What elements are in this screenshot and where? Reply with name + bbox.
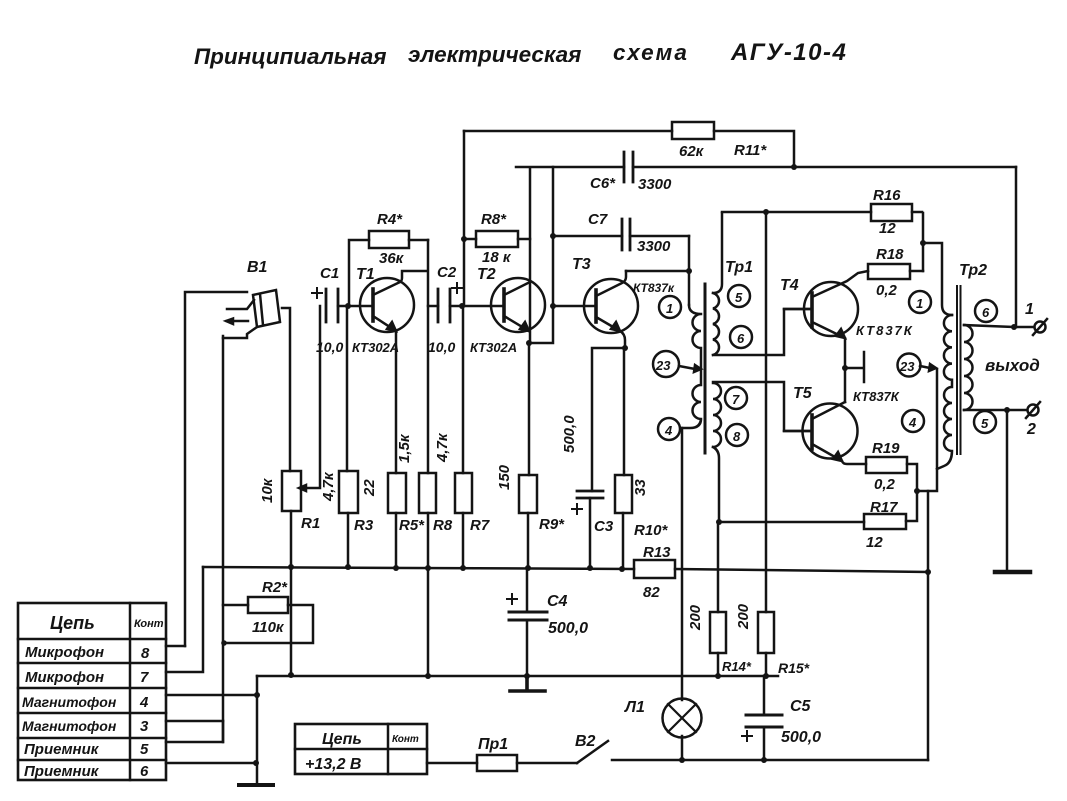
- microphone jack B1: [185, 259, 280, 646]
- node R8 left: [461, 236, 467, 242]
- svg-text:4: 4: [664, 423, 673, 438]
- node dots on bus A: [288, 564, 625, 572]
- svg-text:R13: R13: [643, 544, 671, 561]
- svg-text:С3: С3: [594, 518, 614, 535]
- node T1 base: [345, 303, 351, 309]
- svg-text:С2: С2: [437, 264, 457, 281]
- svg-text:Конт: Конт: [392, 734, 419, 745]
- wire tap23 Tp2 down to node: [917, 369, 937, 491]
- svg-text:Магнитофон: Магнитофон: [22, 718, 117, 734]
- svg-text:В2: В2: [575, 733, 596, 750]
- wire row5: [166, 721, 223, 742]
- svg-text:Т4: Т4: [780, 277, 799, 294]
- pin 4: [658, 418, 680, 440]
- transistor T4: [780, 271, 914, 402]
- svg-text:7: 7: [140, 669, 149, 686]
- svg-text:110к: 110к: [252, 619, 285, 636]
- svg-text:С5: С5: [790, 698, 812, 715]
- wire 62k bus left vertical (to R8 left and T2 base): [463, 131, 466, 306]
- svg-text:10,0: 10,0: [316, 339, 343, 355]
- svg-text:0,2: 0,2: [876, 282, 898, 299]
- pin 23 with arrow: [653, 351, 701, 377]
- wire row3: [166, 720, 223, 723]
- svg-text:Приемник: Приемник: [24, 763, 100, 780]
- svg-text:1: 1: [666, 301, 673, 316]
- connector table XS1: [18, 603, 166, 780]
- node R19/R17/tap4: [914, 488, 920, 494]
- svg-text:С7: С7: [588, 211, 608, 228]
- svg-text:8: 8: [733, 429, 741, 444]
- svg-text:1,5к: 1,5к: [396, 433, 413, 463]
- resistor R16: [871, 187, 912, 237]
- node dots on bus B: [288, 672, 769, 679]
- svg-text:R17: R17: [870, 499, 898, 516]
- svg-text:Тр2: Тр2: [959, 262, 987, 279]
- transistor T1: [348, 266, 414, 355]
- node T3 emitter: [622, 345, 628, 351]
- svg-text:КТ837к: КТ837к: [633, 281, 675, 295]
- svg-text:Цепь: Цепь: [50, 613, 95, 633]
- transformer Tp2 core: [957, 286, 961, 454]
- svg-text:Принципиальная: Принципиальная: [194, 44, 387, 69]
- tap stub with bar: [845, 352, 864, 382]
- svg-text:Цепь: Цепь: [322, 731, 362, 748]
- svg-text:22: 22: [361, 479, 378, 497]
- svg-text:150: 150: [496, 464, 513, 490]
- svg-text:R8: R8: [433, 517, 453, 534]
- svg-text:Пр1: Пр1: [478, 736, 508, 753]
- wire T1 emitter to R5: [395, 331, 398, 473]
- svg-text:Магнитофон: Магнитофон: [22, 694, 117, 710]
- output terminal 1: [964, 301, 1047, 335]
- resistor R8* 18k: [464, 211, 530, 266]
- svg-text:6: 6: [737, 331, 745, 346]
- svg-text:5: 5: [981, 416, 989, 431]
- transistor T2: [462, 266, 545, 355]
- svg-text:Тр1: Тр1: [725, 259, 753, 276]
- long vertical to R15: [765, 212, 768, 612]
- svg-text:R10*: R10*: [634, 522, 669, 539]
- svg-text:5: 5: [140, 741, 149, 758]
- wire R1 bottom through bus-A to bus-B: [290, 511, 293, 675]
- svg-text:С4: С4: [547, 593, 568, 610]
- wire row8 to B1: [166, 645, 185, 648]
- svg-text:R9*: R9*: [539, 516, 565, 533]
- wire B1 output to R1 top: [282, 308, 290, 471]
- resistor R17: [719, 491, 917, 551]
- transistor T5: [784, 385, 900, 464]
- svg-text:3300: 3300: [637, 238, 671, 255]
- pin 5 Tp2: [974, 411, 996, 433]
- svg-text:R18: R18: [876, 246, 904, 263]
- svg-text:Микрофон: Микрофон: [25, 644, 104, 661]
- svg-text:электрическая: электрическая: [408, 42, 581, 67]
- svg-text:R19: R19: [872, 440, 900, 457]
- svg-text:5: 5: [735, 290, 743, 305]
- Tp2 primary winding: [937, 315, 952, 469]
- svg-text:В1: В1: [247, 259, 268, 276]
- svg-text:4,7к: 4,7к: [320, 471, 337, 502]
- output terminal 2: [964, 402, 1040, 438]
- node row4 junction: [254, 692, 260, 698]
- svg-text:АГУ-10-4: АГУ-10-4: [730, 39, 847, 66]
- node bus211/R15 vert: [763, 209, 769, 215]
- svg-text:6: 6: [982, 305, 990, 320]
- svg-text:R5*: R5*: [399, 517, 425, 534]
- lamp L1: [624, 428, 702, 760]
- node R2 loop joint: [221, 640, 227, 646]
- Tp1 primary winding (1-23-4): [682, 305, 701, 428]
- svg-text:6: 6: [140, 763, 149, 780]
- svg-text:82: 82: [643, 584, 660, 601]
- pin 4 Tp2: [902, 410, 924, 432]
- resistor R7: [434, 306, 490, 567]
- svg-text:1: 1: [916, 296, 923, 311]
- ground: [239, 783, 273, 787]
- svg-text:4: 4: [139, 694, 149, 711]
- node T2 emitter / R9: [526, 340, 532, 346]
- svg-text:200: 200: [735, 603, 752, 630]
- node terminal2 ground branch: [1004, 407, 1010, 413]
- svg-text:62к: 62к: [679, 143, 705, 160]
- wire row6: [166, 762, 256, 765]
- switch B2: [575, 733, 608, 763]
- power table: [295, 724, 427, 774]
- svg-text:выход: выход: [985, 356, 1040, 375]
- svg-text:10к: 10к: [259, 477, 276, 503]
- svg-text:КТ837К: КТ837К: [856, 323, 914, 338]
- svg-text:33: 33: [632, 479, 649, 496]
- svg-text:R1: R1: [301, 515, 320, 532]
- svg-text:R3: R3: [354, 517, 374, 534]
- wire output common down to bus A and bottom: [927, 491, 930, 760]
- resistor R5*: [361, 473, 425, 567]
- capacitor C6* with bus: [516, 152, 1016, 193]
- svg-text:Приемник: Приемник: [24, 741, 100, 758]
- supply bus A with R13: [203, 567, 928, 572]
- pin 1 Tp2: [909, 291, 931, 313]
- Tp1 secondary winding 7-8: [713, 382, 812, 522]
- wire row7 to ground bus: [166, 567, 203, 672]
- ground below C4: [510, 676, 545, 691]
- svg-text:Микрофон: Микрофон: [25, 669, 104, 686]
- svg-text:4,7к: 4,7к: [434, 432, 451, 463]
- node bus A right: [925, 569, 931, 575]
- node R16/R18 junction: [920, 240, 926, 246]
- svg-text:Т1: Т1: [356, 266, 375, 283]
- wire vertical bus-B left end down: [256, 676, 259, 783]
- potentiometer R1: [259, 306, 320, 532]
- capacitor C3: [561, 415, 614, 568]
- svg-text:23: 23: [899, 359, 915, 374]
- pin 5: [728, 285, 750, 307]
- resistor R19: [866, 440, 917, 493]
- pin 7: [725, 387, 747, 409]
- pin 23 Tp2 with arrow: [898, 354, 937, 377]
- pin 1: [659, 296, 681, 318]
- node C5 bottom: [761, 757, 767, 763]
- svg-text:4: 4: [908, 415, 917, 430]
- node T2 base: [459, 303, 465, 309]
- node output 1: [1011, 324, 1017, 330]
- ground bus B: [257, 675, 778, 678]
- capacitor C4: [507, 569, 588, 676]
- wire T3 emitter branch to C3: [592, 348, 625, 491]
- wire B1 switch contact down (R2/rows3,5): [222, 336, 225, 742]
- capacitor C7: [553, 211, 689, 255]
- node row6 junction: [253, 760, 259, 766]
- svg-text:2: 2: [1026, 421, 1036, 438]
- svg-text:1: 1: [1025, 301, 1034, 318]
- svg-text:500,0: 500,0: [561, 415, 578, 453]
- svg-text:R8*: R8*: [481, 211, 507, 228]
- top bus 62k R11*: [464, 122, 794, 167]
- svg-text:Л1: Л1: [624, 699, 645, 716]
- svg-text:7: 7: [732, 392, 740, 407]
- svg-text:КТ837К: КТ837К: [853, 389, 900, 404]
- svg-text:0,2: 0,2: [874, 476, 896, 493]
- node T4e/T5c tap: [842, 365, 848, 371]
- pin 6: [730, 326, 752, 348]
- svg-text:23: 23: [655, 358, 671, 373]
- svg-text:С1: С1: [320, 265, 339, 282]
- capacitor C2: [428, 264, 462, 355]
- svg-text:3: 3: [140, 718, 149, 735]
- ground right: [1006, 410, 1009, 570]
- resistor R4*: [349, 211, 428, 306]
- svg-text:18 к: 18 к: [482, 249, 512, 266]
- svg-text:R7: R7: [470, 517, 490, 534]
- fuse Pr1: [427, 736, 577, 771]
- svg-text:12: 12: [879, 220, 896, 237]
- resistor R10*: [615, 348, 669, 569]
- svg-text:Конт: Конт: [134, 618, 164, 630]
- svg-text:КТ302А: КТ302А: [470, 340, 517, 355]
- svg-text:Т2: Т2: [477, 266, 496, 283]
- resistor R14*: [687, 522, 752, 676]
- svg-text:10,0: 10,0: [428, 339, 455, 355]
- transformer Tp1 core: [704, 284, 707, 453]
- wire row4 to vert: [166, 694, 257, 697]
- wire T1 collector up and to C2: [400, 240, 438, 306]
- wire C6 bus vertical to R8 right and T2 collector: [529, 168, 532, 343]
- resistor R13: [634, 544, 675, 601]
- svg-text:3300: 3300: [638, 176, 672, 193]
- svg-text:12: 12: [866, 534, 883, 551]
- svg-text:КТ302А: КТ302А: [352, 340, 399, 355]
- wire T3 collector to C7 right / Tp1 top: [626, 236, 689, 305]
- svg-text:+13,2 В: +13,2 В: [305, 756, 361, 773]
- node R14 top / winding8: [716, 519, 722, 525]
- capacitor C1: [312, 265, 348, 355]
- wire T2 emitter down, corner to T3 base vertical: [529, 167, 553, 343]
- svg-text:R14*: R14*: [722, 659, 752, 674]
- svg-text:200: 200: [687, 604, 704, 631]
- resistor R18: [868, 246, 923, 299]
- resistor R8 (1,5k): [396, 306, 453, 676]
- wire feedback vertical right: [1015, 167, 1018, 327]
- svg-text:схема: схема: [613, 40, 689, 65]
- node T3 collector: [686, 268, 692, 274]
- capacitor C5: [742, 676, 821, 760]
- node T3 base: [550, 303, 556, 309]
- title: [194, 39, 847, 69]
- svg-text:R15*: R15*: [778, 660, 810, 676]
- svg-text:Т5: Т5: [793, 385, 813, 402]
- pin 8: [726, 424, 748, 446]
- svg-text:R4*: R4*: [377, 211, 403, 228]
- bottom supply line: [612, 759, 928, 762]
- pin 6 Tp2: [975, 300, 997, 322]
- node lamp bottom: [679, 757, 685, 763]
- resistor R15*: [735, 603, 810, 676]
- svg-text:С6*: С6*: [590, 175, 616, 192]
- node 62k bus joins C6 bus: [791, 164, 797, 170]
- svg-text:36к: 36к: [379, 250, 405, 267]
- node C7 left: [550, 233, 556, 239]
- svg-text:500,0: 500,0: [781, 729, 821, 746]
- svg-text:500,0: 500,0: [548, 620, 588, 637]
- supply bus 211: [722, 211, 922, 214]
- svg-text:8: 8: [141, 645, 150, 662]
- resistor R3: [320, 306, 374, 567]
- svg-text:R2*: R2*: [262, 579, 288, 596]
- transistor T3: [553, 256, 675, 348]
- Tp1 secondary winding 5-6: [713, 213, 812, 355]
- svg-text:R16: R16: [873, 187, 901, 204]
- svg-text:R11*: R11*: [734, 142, 767, 159]
- wire R16 right down to Tp2 pin1: [923, 213, 952, 315]
- svg-text:Т3: Т3: [572, 256, 591, 273]
- resistor R2*: [223, 579, 313, 643]
- resistor R9*: [496, 343, 565, 568]
- Tp2 secondary winding: [964, 325, 973, 410]
